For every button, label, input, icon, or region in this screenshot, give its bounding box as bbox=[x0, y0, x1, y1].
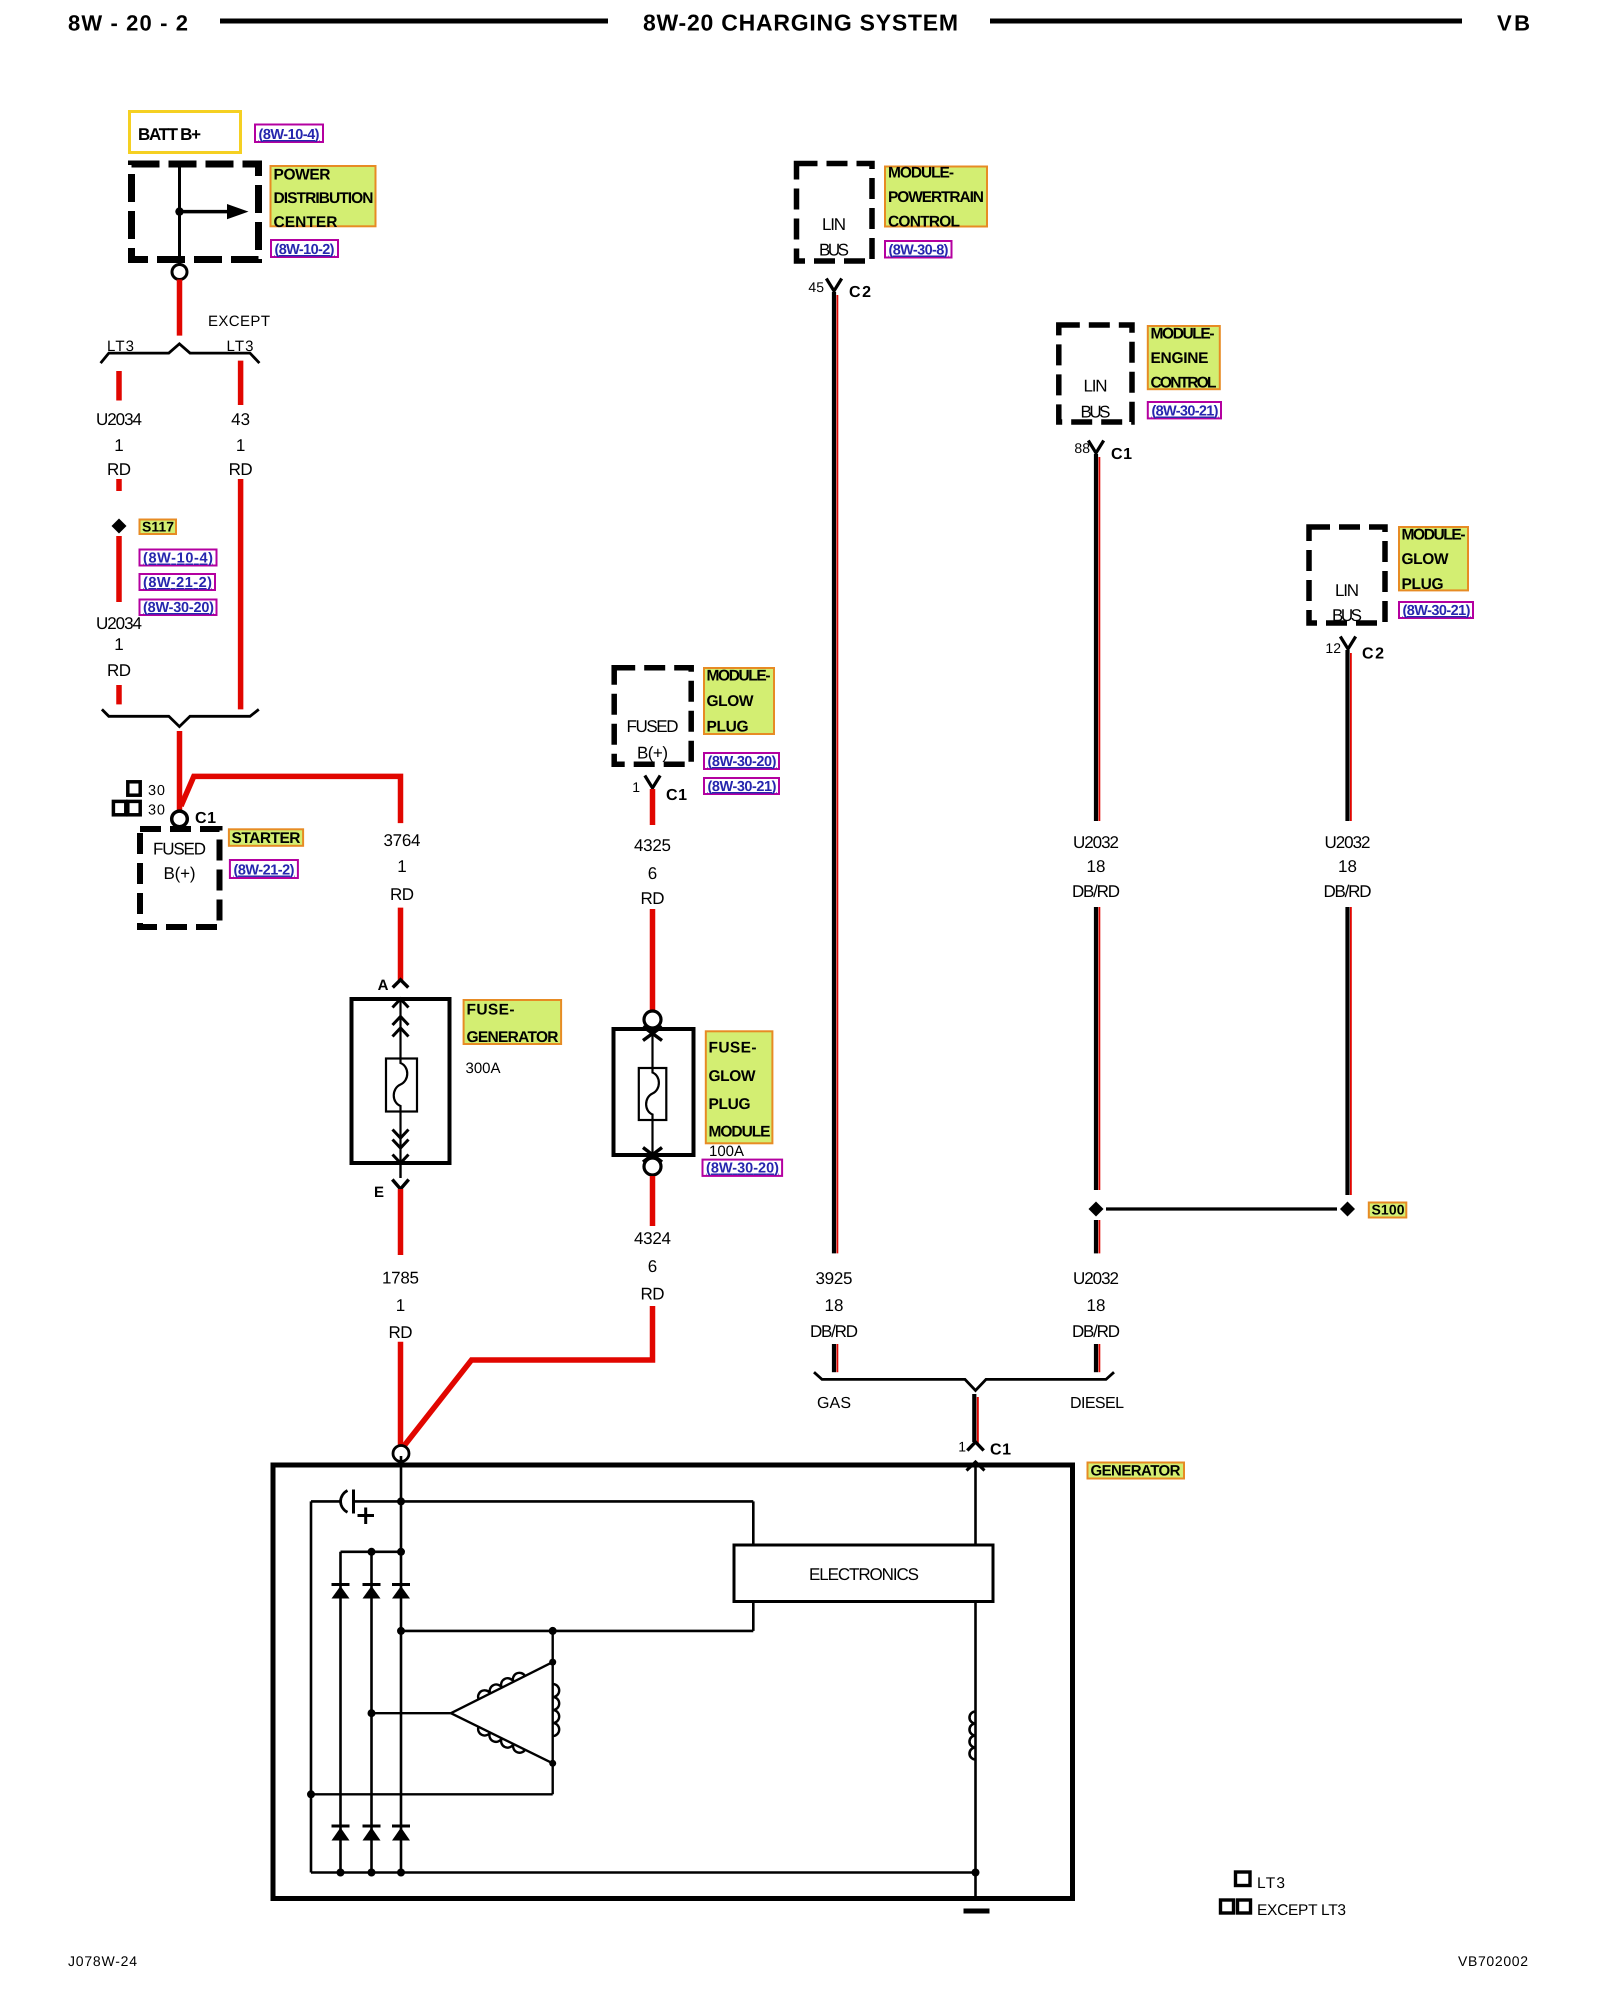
svg-text:U2032: U2032 bbox=[1073, 833, 1119, 852]
connector C2 pin 45 (powertrain) bbox=[808, 279, 871, 302]
svg-text:(8W-30-21): (8W-30-21) bbox=[1152, 404, 1219, 420]
diode D3 (top row) bbox=[392, 1585, 410, 1599]
electronics box bbox=[734, 1545, 993, 1602]
labels 1785 1 RD bbox=[382, 1269, 419, 1343]
svg-text:C1: C1 bbox=[195, 810, 216, 827]
svg-text:DB/RD: DB/RD bbox=[1324, 882, 1372, 901]
svg-text:RD: RD bbox=[390, 885, 414, 904]
STARTER label bbox=[229, 829, 303, 847]
MODULE-GLOW PLUG (LIN) label bbox=[1399, 527, 1468, 594]
MODULE-POWERTRAIN CONTROL label bbox=[885, 165, 987, 231]
FUSE-GLOW PLUG MODULE label bbox=[706, 1031, 773, 1143]
svg-text:1: 1 bbox=[958, 1439, 966, 1455]
svg-text:18: 18 bbox=[1087, 1296, 1106, 1315]
svg-text:100A: 100A bbox=[709, 1143, 744, 1160]
svg-text:300A: 300A bbox=[466, 1060, 501, 1077]
brace split LT3 / EXCEPT LT3 bbox=[101, 344, 260, 363]
svg-text:(8W-10-4): (8W-10-4) bbox=[143, 551, 213, 567]
stator winding delta right leg bbox=[552, 1631, 554, 1794]
S117 label bbox=[140, 519, 177, 535]
svg-text:1: 1 bbox=[236, 436, 245, 455]
svg-text:(8W-10-4): (8W-10-4) bbox=[259, 127, 320, 143]
PDC label bbox=[271, 166, 376, 231]
connector C1 starter bbox=[172, 810, 216, 827]
labels 3925 18 DB/RD bbox=[810, 1269, 858, 1341]
wire 4325 lower segment bbox=[650, 909, 656, 1011]
junction dot left phase bbox=[368, 1709, 376, 1717]
svg-text:(8W-21-2): (8W-21-2) bbox=[234, 863, 295, 879]
link 8W-21-2 (starter) bbox=[230, 860, 298, 879]
LIN wire U2032 engine control to S100 bbox=[1096, 907, 1099, 1190]
wire merge to generator C1 bbox=[974, 1394, 978, 1444]
svg-text:DB/RD: DB/RD bbox=[1072, 1322, 1120, 1341]
wire 43 segment 2 bbox=[238, 479, 244, 709]
svg-text:30: 30 bbox=[148, 803, 165, 819]
wire branch diagonal to fuse feed bbox=[181, 776, 401, 823]
svg-text:CONTROL: CONTROL bbox=[888, 214, 960, 231]
connector C1 pin 1 (module glow plug) bbox=[632, 776, 687, 805]
field coil feed from electronics bbox=[974, 1602, 977, 1902]
generator box bbox=[273, 1465, 1073, 1899]
diode column 2 bbox=[370, 1552, 373, 1873]
labels U2032 18 DB/RD (glow mid) bbox=[1324, 833, 1372, 901]
svg-text:1: 1 bbox=[632, 779, 640, 795]
link 8W-10-2 (PDC) bbox=[271, 240, 338, 258]
svg-text:MODULE-: MODULE- bbox=[707, 668, 771, 685]
svg-text:4324: 4324 bbox=[634, 1229, 671, 1248]
svg-text:8W - 20 - 2: 8W - 20 - 2 bbox=[68, 11, 188, 36]
svg-text:DIESEL: DIESEL bbox=[1070, 1395, 1124, 1412]
module glow plug fused B+ box bbox=[614, 668, 691, 765]
svg-text:BUS: BUS bbox=[819, 241, 849, 260]
svg-text:U2032: U2032 bbox=[1325, 833, 1371, 852]
junction dots top bus bbox=[368, 1548, 406, 1556]
svg-text:4325: 4325 bbox=[634, 836, 671, 855]
svg-text:12: 12 bbox=[1325, 640, 1341, 656]
link 8W-30-21 (engine control) bbox=[1148, 402, 1221, 420]
connector C2 pin 12 (glow LIN) bbox=[1325, 637, 1384, 663]
battery B+ terminal box bbox=[130, 112, 241, 153]
connector fork at fuse A bbox=[393, 980, 409, 988]
wire 3925 stub to brace bbox=[834, 1344, 837, 1372]
labels U2032 18 DB/RD (diesel lower) bbox=[1072, 1269, 1120, 1341]
diode D1 (top row) bbox=[332, 1585, 350, 1599]
svg-text:FUSE-: FUSE- bbox=[467, 1002, 515, 1019]
stator winding side L-T bbox=[451, 1662, 553, 1713]
svg-text:FUSED: FUSED bbox=[627, 717, 679, 736]
svg-text:GLOW: GLOW bbox=[709, 1068, 756, 1085]
svg-text:POWERTRAIN: POWERTRAIN bbox=[888, 189, 984, 206]
svg-text:EXCEPT LT3: EXCEPT LT3 bbox=[1257, 1902, 1346, 1919]
connector C1 pin 88 (engine control) bbox=[1074, 440, 1132, 463]
svg-text:1785: 1785 bbox=[382, 1269, 419, 1288]
capacitor (polarized) bbox=[341, 1490, 375, 1525]
svg-text:DB/RD: DB/RD bbox=[810, 1322, 858, 1341]
svg-text:6: 6 bbox=[648, 864, 657, 883]
stator winding side L-B bbox=[451, 1713, 553, 1763]
junction dots stator feed bbox=[397, 1627, 557, 1635]
header rule right bbox=[990, 19, 1462, 24]
fuse glow plug module box bbox=[614, 1027, 694, 1163]
wire 1785 to generator bbox=[398, 1342, 404, 1450]
wire U2034 segment 3 bbox=[116, 536, 122, 602]
svg-text:LT3: LT3 bbox=[1257, 1875, 1285, 1892]
svg-text:6: 6 bbox=[648, 1257, 657, 1276]
svg-text:1: 1 bbox=[397, 857, 406, 876]
EXCEPT LT3 marker squares with 30 bbox=[113, 801, 165, 818]
svg-text:BATT B+: BATT B+ bbox=[138, 125, 201, 144]
wire battery feed (RD) bbox=[177, 280, 183, 336]
ground rail junction dots bbox=[337, 1869, 980, 1877]
svg-text:CENTER: CENTER bbox=[274, 214, 338, 231]
svg-text:RD: RD bbox=[389, 1323, 413, 1342]
svg-text:BUS: BUS bbox=[1081, 403, 1111, 422]
svg-text:J078W-24: J078W-24 bbox=[68, 1953, 137, 1969]
wire 4324 routed to generator bbox=[401, 1306, 653, 1450]
legend EXCEPT LT3 marker bbox=[1221, 1900, 1347, 1919]
junction dot B+ rail bbox=[397, 1497, 405, 1505]
fuse-generator box bbox=[352, 999, 450, 1163]
svg-text:18: 18 bbox=[1087, 857, 1106, 876]
brace merge to starter feed bbox=[102, 709, 259, 726]
svg-text:ENGINE: ENGINE bbox=[1151, 350, 1209, 367]
labels U2034 1 RD (lower) bbox=[96, 614, 142, 680]
svg-text:PLUG: PLUG bbox=[1402, 576, 1444, 593]
svg-text:1: 1 bbox=[114, 635, 123, 654]
starter fused B+ box bbox=[140, 829, 220, 927]
svg-text:RD: RD bbox=[107, 460, 131, 479]
wire segment below S100 bbox=[1096, 1220, 1099, 1253]
svg-text:C1: C1 bbox=[1111, 446, 1132, 463]
svg-text:GAS: GAS bbox=[817, 1395, 851, 1412]
svg-text:U2034: U2034 bbox=[96, 614, 142, 633]
diode D4 (bottom row) bbox=[332, 1826, 350, 1841]
svg-text:MODULE-: MODULE- bbox=[1402, 527, 1466, 544]
svg-text:RD: RD bbox=[641, 1285, 665, 1304]
svg-text:U2032: U2032 bbox=[1073, 1269, 1119, 1288]
svg-text:PLUG: PLUG bbox=[709, 1096, 751, 1113]
module engine control box bbox=[1059, 325, 1132, 422]
svg-text:LIN: LIN bbox=[822, 215, 846, 234]
generator C1 terminal arrow bbox=[967, 1462, 985, 1545]
labels U2034 1 RD (upper) bbox=[96, 410, 142, 479]
wire stator left phase bbox=[372, 1712, 451, 1714]
module glow plug (LIN) box bbox=[1309, 527, 1385, 625]
svg-text:C2: C2 bbox=[1362, 646, 1384, 663]
svg-text:DISTRIBUTION: DISTRIBUTION bbox=[274, 190, 374, 207]
svg-text:POWER: POWER bbox=[274, 167, 331, 184]
link 8W-30-8 bbox=[885, 241, 952, 259]
svg-text:FUSE-: FUSE- bbox=[709, 1040, 757, 1057]
wire 1785 segment bbox=[398, 1189, 404, 1255]
svg-text:3925: 3925 bbox=[816, 1269, 853, 1288]
svg-text:B(+): B(+) bbox=[164, 864, 196, 883]
link 8W-10-4 (battery) bbox=[255, 125, 323, 144]
link 8W-30-21 (module glow plug) bbox=[704, 778, 779, 795]
MODULE-ENGINE CONTROL label bbox=[1148, 326, 1220, 392]
header rule left bbox=[220, 19, 608, 24]
svg-text:FUSED: FUSED bbox=[153, 840, 206, 859]
link 8W-21-2 (S117) bbox=[140, 574, 216, 591]
splice S100 bus link bbox=[1106, 1207, 1337, 1210]
wire stub to brace (diesel) bbox=[1096, 1344, 1099, 1372]
link 8W-30-20 (fuse glow) bbox=[703, 1160, 783, 1177]
FUSE-GENERATOR label bbox=[464, 1000, 561, 1046]
wire U2034 segment 4 bbox=[116, 685, 122, 704]
diode D5 (bottom row) bbox=[363, 1826, 381, 1841]
splice S117 diamond bbox=[112, 519, 127, 534]
LIN wire U2032 glow to S100 bbox=[1348, 907, 1351, 1195]
S100 label bbox=[1369, 1202, 1407, 1218]
stator vertex dots bbox=[549, 1659, 556, 1767]
rectifier top bus bbox=[341, 1551, 402, 1554]
svg-text:GENERATOR: GENERATOR bbox=[467, 1029, 559, 1046]
svg-text:(8W-30-20): (8W-30-20) bbox=[708, 754, 777, 770]
connector eyelet generator B+ bbox=[393, 1446, 409, 1462]
wire capacitor left leg bbox=[311, 1500, 342, 1503]
svg-text:E: E bbox=[374, 1184, 384, 1201]
svg-text:B(+): B(+) bbox=[637, 744, 668, 763]
wire U2034 segment 2 bbox=[116, 479, 122, 491]
wire 4324 upper segment bbox=[650, 1176, 656, 1226]
link 8W-30-21 (glow LIN) bbox=[1399, 602, 1473, 619]
brace merge GAS/DIESEL bbox=[814, 1372, 1114, 1390]
svg-text:GLOW: GLOW bbox=[1402, 551, 1449, 568]
svg-text:C2: C2 bbox=[849, 284, 871, 301]
ground rail bbox=[311, 1871, 976, 1874]
svg-text:1: 1 bbox=[396, 1296, 405, 1315]
svg-text:DB/RD: DB/RD bbox=[1072, 882, 1120, 901]
svg-text:18: 18 bbox=[825, 1296, 844, 1315]
svg-text:ELECTRONICS: ELECTRONICS bbox=[809, 1565, 919, 1584]
svg-text:LIN: LIN bbox=[1335, 581, 1359, 600]
svg-text:(8W-21-2): (8W-21-2) bbox=[143, 575, 212, 591]
LIN wire U2032 glow upper run bbox=[1348, 650, 1351, 821]
svg-text:VB: VB bbox=[1497, 11, 1530, 36]
svg-text:(8W-30-20): (8W-30-20) bbox=[706, 1161, 779, 1177]
module powertrain control box bbox=[797, 164, 873, 262]
svg-text:S117: S117 bbox=[142, 519, 174, 535]
svg-text:PLUG: PLUG bbox=[707, 719, 749, 736]
diode D2 (top row) bbox=[363, 1585, 381, 1599]
field coil (rotor) bbox=[970, 1712, 976, 1760]
svg-text:8W-20 CHARGING SYSTEM: 8W-20 CHARGING SYSTEM bbox=[643, 10, 958, 36]
wire 3764 lower segment bbox=[398, 908, 404, 980]
LIN bus wire 3925 (DB/RD) long run bbox=[834, 292, 837, 1253]
svg-text:(8W-30-21): (8W-30-21) bbox=[1403, 603, 1471, 619]
ground symbol bbox=[964, 1909, 990, 1914]
svg-text:45: 45 bbox=[808, 279, 824, 295]
LIN wire U2032 engine control upper run bbox=[1096, 454, 1099, 821]
labels 3764 1 RD bbox=[384, 831, 421, 904]
svg-text:43: 43 bbox=[231, 410, 250, 429]
diode column 1 bbox=[339, 1552, 342, 1873]
svg-text:CONTROL: CONTROL bbox=[1151, 375, 1217, 392]
svg-text:(8W-30-8): (8W-30-8) bbox=[889, 243, 949, 259]
svg-text:1: 1 bbox=[114, 436, 123, 455]
svg-text:C1: C1 bbox=[990, 1442, 1011, 1459]
link 8W-30-20 (S117) bbox=[140, 600, 217, 617]
svg-text:LIN: LIN bbox=[1084, 377, 1108, 396]
power distribution center box bbox=[132, 161, 259, 265]
MODULE-GLOW PLUG label bbox=[704, 668, 774, 736]
svg-text:(8W-10-2): (8W-10-2) bbox=[275, 242, 335, 258]
svg-text:EXCEPT: EXCEPT bbox=[208, 313, 270, 330]
connector eyelet fuse glow top bbox=[644, 1011, 661, 1028]
connector C1 pin 1 (generator) bbox=[958, 1439, 1011, 1459]
link 8W-10-4 (S117) bbox=[140, 550, 217, 567]
svg-text:(8W-30-20): (8W-30-20) bbox=[143, 600, 214, 616]
svg-text:18: 18 bbox=[1338, 857, 1357, 876]
wire 43 segment 1 bbox=[238, 361, 244, 405]
svg-text:3764: 3764 bbox=[384, 831, 421, 850]
svg-text:MODULE-: MODULE- bbox=[888, 165, 954, 182]
stator winding side T-B coil bbox=[553, 1684, 560, 1736]
wire U2034 LT3 segment 1 bbox=[116, 371, 122, 401]
svg-text:RD: RD bbox=[107, 661, 131, 680]
svg-text:S100: S100 bbox=[1372, 1202, 1405, 1218]
svg-text:GENERATOR: GENERATOR bbox=[1091, 1463, 1181, 1480]
svg-text:MODULE-: MODULE- bbox=[1151, 326, 1215, 343]
GENERATOR label bbox=[1088, 1463, 1185, 1480]
svg-text:BUS: BUS bbox=[1332, 606, 1362, 625]
labels 43 1 RD bbox=[229, 410, 253, 479]
diode D6 (bottom row) bbox=[392, 1826, 410, 1841]
legend LT3 marker bbox=[1236, 1872, 1286, 1892]
main B+ vertical (diode column 3) bbox=[400, 1456, 403, 1873]
svg-text:VB702002: VB702002 bbox=[1458, 1953, 1528, 1969]
svg-text:U2034: U2034 bbox=[96, 410, 142, 429]
link 8W-30-20 (module glow plug) bbox=[704, 753, 779, 770]
labels 4324 6 RD bbox=[634, 1229, 671, 1304]
splice S100 diamond right bbox=[1340, 1202, 1355, 1217]
svg-text:C1: C1 bbox=[666, 787, 687, 804]
svg-text:MODULE: MODULE bbox=[709, 1124, 771, 1141]
svg-text:GLOW: GLOW bbox=[707, 693, 754, 710]
connector fork at fuse E bbox=[392, 1163, 408, 1189]
LT3 marker square with 30 bbox=[128, 782, 165, 799]
svg-text:RD: RD bbox=[641, 889, 665, 908]
connector eyelet at PDC output bbox=[172, 265, 187, 280]
wire trunk to starter C1 bbox=[177, 731, 183, 812]
labels U2032 18 DB/RD (engine mid) bbox=[1072, 833, 1120, 901]
wire stator feed to electronics bottom bbox=[401, 1602, 753, 1631]
connector eyelet fuse glow bottom bbox=[644, 1158, 661, 1175]
wire B+ rail to electronics top bbox=[354, 1501, 754, 1545]
svg-text:STARTER: STARTER bbox=[232, 830, 301, 847]
wire 4325 upper segment bbox=[650, 789, 656, 825]
labels 4325 6 RD bbox=[634, 836, 671, 908]
svg-text:A: A bbox=[378, 977, 389, 994]
junction dot bottom phase bbox=[307, 1790, 315, 1798]
wire left sense loop vertical bbox=[310, 1501, 313, 1872]
svg-text:30: 30 bbox=[148, 783, 165, 799]
svg-text:RD: RD bbox=[229, 460, 253, 479]
svg-text:(8W-30-21): (8W-30-21) bbox=[708, 779, 777, 795]
wire stator bottom phase bbox=[311, 1793, 553, 1795]
splice S100 diamond left bbox=[1089, 1202, 1104, 1217]
